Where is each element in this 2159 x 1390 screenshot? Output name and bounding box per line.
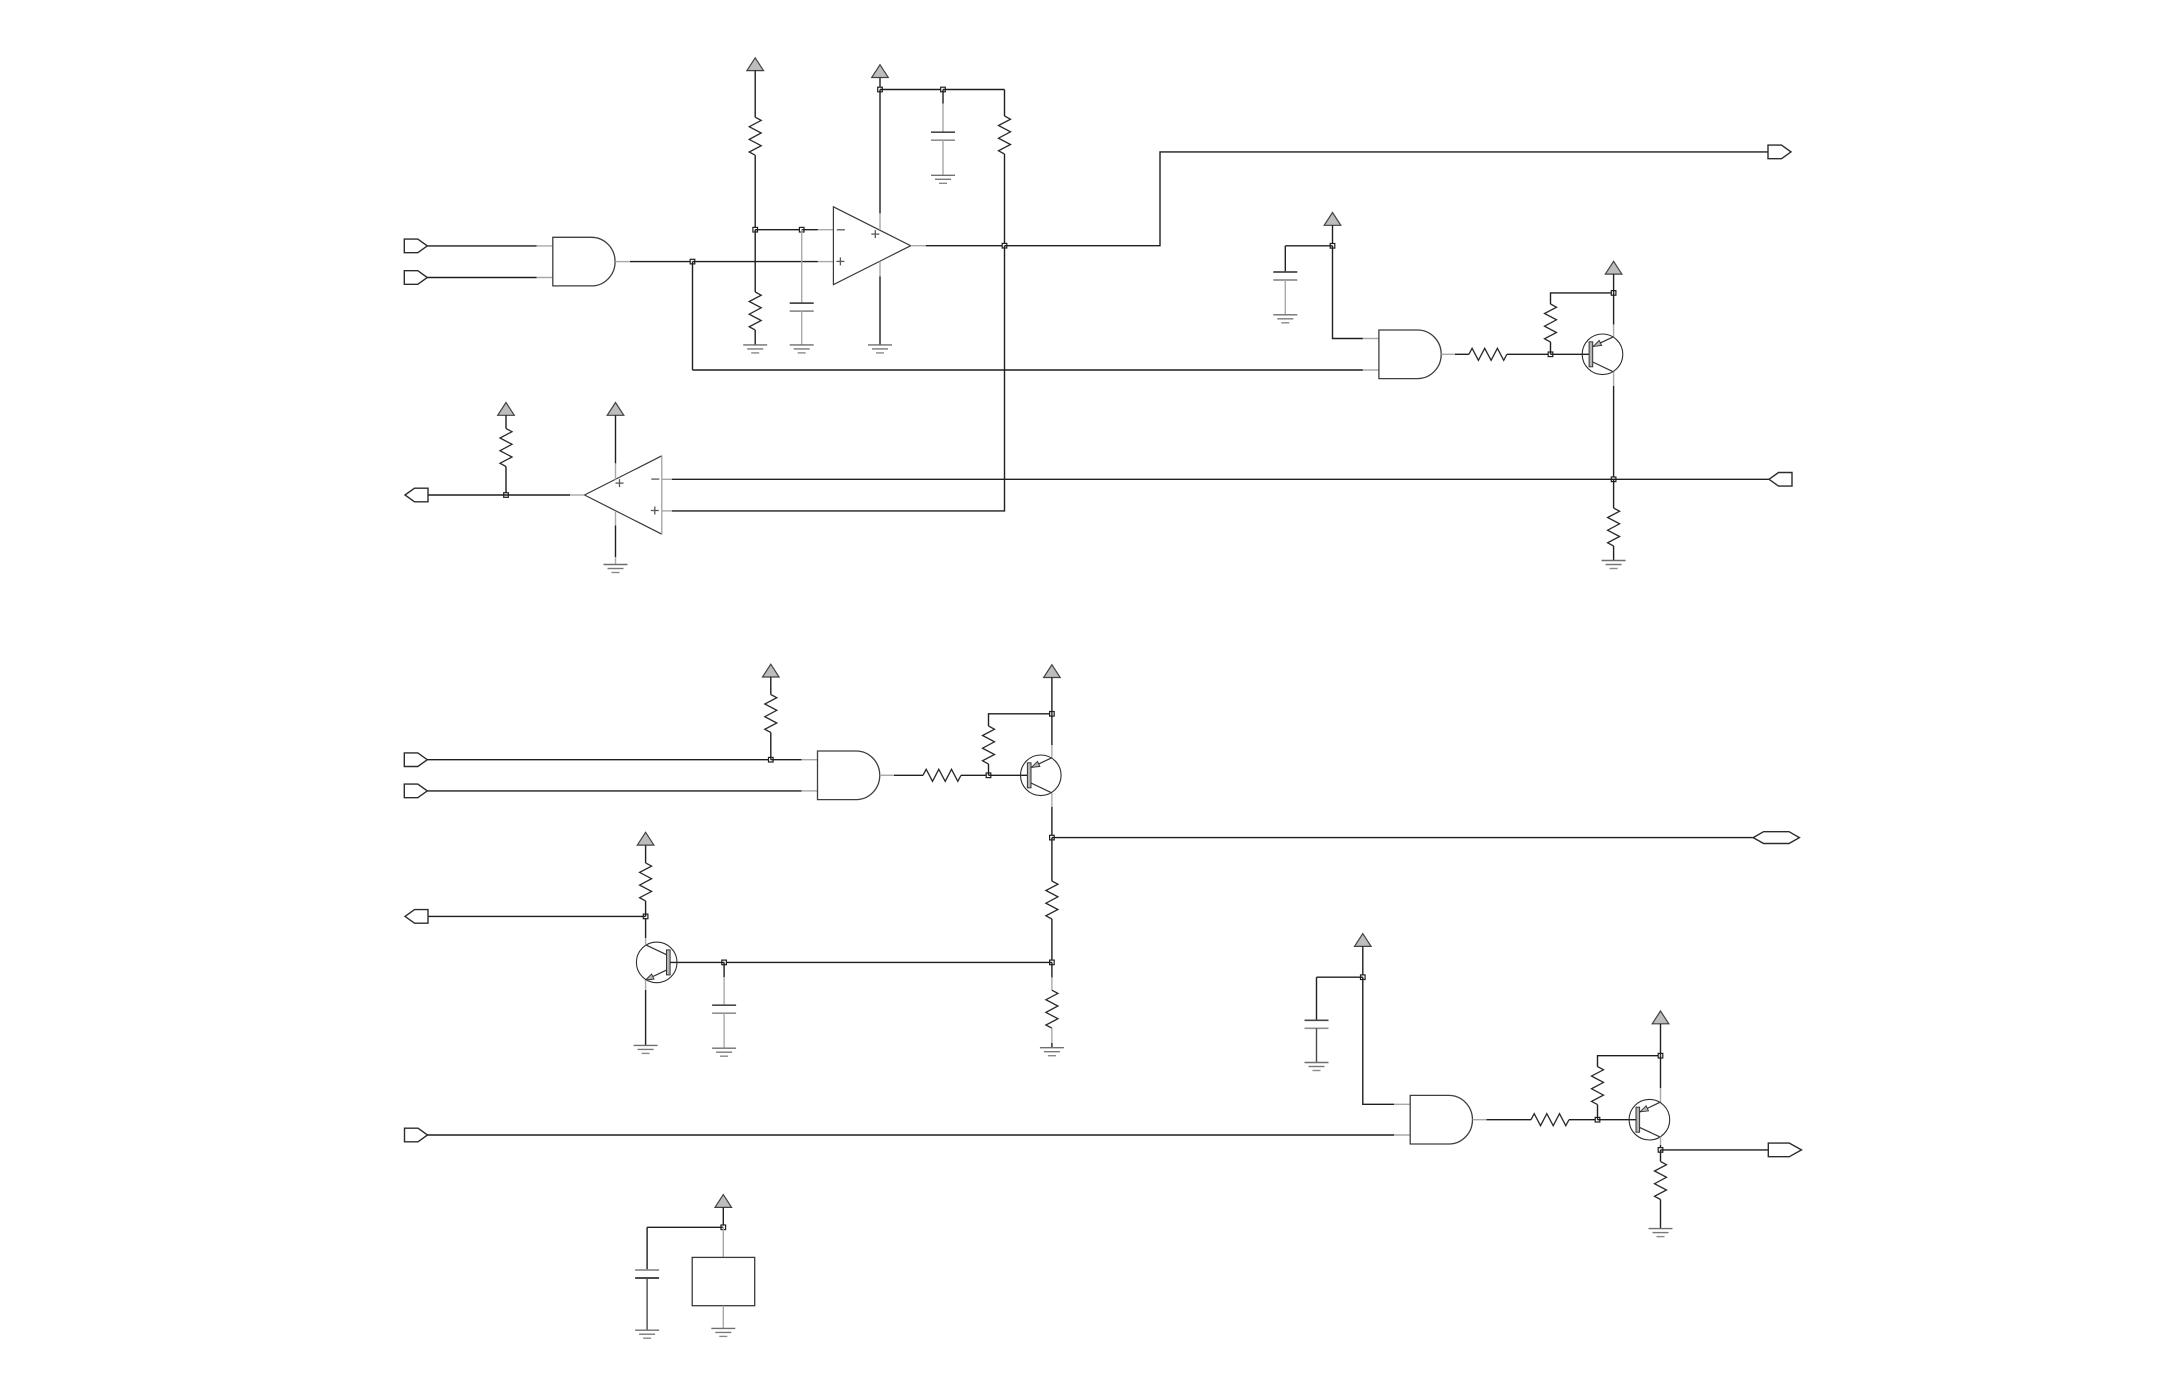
junction Q3 collector node	[643, 914, 648, 919]
wire node B to C1 node	[755, 229, 802, 231]
wire collector node to OUT5	[1661, 1149, 1771, 1151]
ground below C1	[790, 345, 814, 353]
junction Q1 emitter rail	[1611, 291, 1616, 296]
wire C7 node to U6 input A	[1363, 977, 1394, 1104]
pin stub Q4 collector	[1660, 1137, 1662, 1145]
junction Q4 collector node	[1658, 1148, 1663, 1153]
pin stub U4 input B	[802, 790, 818, 792]
pin stub U5 -in	[662, 478, 672, 480]
output connector OUT2	[1769, 473, 1792, 487]
ground below U2	[868, 345, 892, 353]
ground below C4	[712, 1048, 736, 1056]
junction Q3 base node	[722, 960, 727, 965]
resistor R8	[765, 695, 777, 733]
wire R4 to Q1 base node	[1507, 353, 1551, 355]
pin stub X1 bottom	[722, 1306, 724, 1329]
node A junction	[690, 259, 695, 264]
wire feedback to U3 gate input	[693, 369, 1363, 371]
pin stub Q2 collector	[1051, 793, 1053, 807]
wire node D to OUT3	[428, 494, 506, 496]
wire Q3 emitter to ground	[645, 990, 647, 1045]
resistor R2	[749, 292, 761, 330]
wire IN2 to U1 gate	[427, 277, 536, 279]
ground below C6	[635, 1330, 659, 1338]
VCC symbol above R13	[637, 832, 654, 845]
pin stub Q1 emitter	[1613, 325, 1615, 338]
wire U2 V- to ground	[879, 276, 881, 345]
node B junction at R1/R2	[753, 227, 758, 232]
wire R7 to node D	[505, 467, 507, 496]
VCC symbol above X1	[715, 1195, 732, 1208]
junction Q4 base node	[1595, 1117, 1600, 1122]
pin stub U5 gnd	[615, 557, 617, 565]
resistor R12	[1046, 990, 1058, 1028]
pin stub U6 input A	[1394, 1103, 1410, 1105]
input connector IN1	[404, 239, 427, 253]
resistor R5	[1545, 304, 1557, 342]
resistor R9	[923, 769, 961, 781]
pin stub U3 output	[1441, 353, 1455, 355]
wire R1 to node B	[754, 155, 756, 230]
wire C7 to ground	[1316, 1028, 1318, 1062]
pin stub U5 V-	[615, 511, 617, 526]
pin stub U3 input A	[1363, 338, 1379, 340]
pin stub U1 input B	[537, 277, 553, 279]
junction Q2 collector node	[1050, 835, 1055, 840]
VCC symbol above Q2	[1044, 665, 1061, 678]
wire C3 to ground	[1284, 280, 1286, 315]
resistor R6	[1608, 508, 1620, 546]
wire U2 output to node C	[926, 245, 1005, 247]
resistor R15	[1592, 1067, 1604, 1105]
wire base node to Q4	[1598, 1119, 1637, 1121]
wire R14 to Q4 base node	[1569, 1119, 1598, 1121]
resistor R10	[983, 726, 995, 764]
AND gate U3	[1379, 330, 1441, 379]
output connector OUT3	[405, 488, 428, 502]
capacitor C1	[790, 303, 814, 311]
pin stub U2 output	[911, 245, 926, 247]
capacitor C3	[1273, 272, 1297, 280]
node F junction	[1050, 960, 1055, 965]
VCC symbol above U2	[872, 65, 889, 78]
wire Q4 collector down	[1660, 1145, 1662, 1150]
pin stub Q3 collector	[645, 938, 647, 945]
input connector IN2	[404, 271, 427, 285]
wire base node up to R5	[1550, 342, 1552, 354]
AND gate U1	[553, 237, 615, 286]
node E junction	[769, 757, 774, 762]
wire C3 node left	[1285, 245, 1332, 247]
wire Q1 collector to R6	[1613, 479, 1615, 508]
pin stub U2 +in	[818, 261, 834, 263]
wire VCC to Q1 rail	[1613, 274, 1615, 293]
pin stub X1 top	[722, 1227, 724, 1257]
resistor R13	[640, 863, 652, 901]
wire node B to U2 inverting input	[802, 229, 818, 231]
wire C6 upper lead	[646, 1227, 648, 1270]
wire U4 output to R9	[894, 774, 923, 776]
wire R12 to ground	[1051, 1043, 1053, 1048]
junction Q2 emitter rail	[1050, 712, 1055, 717]
junction Q2 base node	[986, 773, 991, 778]
wire Q1 collector down	[1613, 386, 1615, 479]
VCC symbol above R7	[498, 403, 515, 416]
wire VCC to R1	[754, 71, 756, 118]
wire R9 to Q2 base node	[961, 774, 989, 776]
VCC symbol above Q4	[1652, 1011, 1669, 1024]
wire R10 top to VCC rail	[989, 714, 1052, 726]
ground below C3	[1273, 315, 1297, 323]
resistor R16	[1655, 1162, 1667, 1200]
wire node to R11	[1051, 838, 1053, 881]
wire node B to R2 lower	[754, 230, 756, 292]
transistor Q1 (PNP)	[1582, 334, 1623, 375]
wire node C to OUT1	[1005, 152, 1769, 246]
wire VCC to X1 node	[722, 1207, 724, 1227]
wire U1 output to node A	[630, 261, 693, 263]
pin stub U2 V+	[879, 213, 881, 230]
junction Q1 base node	[1548, 352, 1553, 357]
output connector OUT5	[1768, 1143, 1801, 1157]
wire VCC to C3 node	[1332, 225, 1334, 246]
wire rail to Q4 emitter	[1660, 1056, 1662, 1088]
wire R11 to node F	[1051, 919, 1053, 962]
wire C7 upper lead	[1316, 977, 1318, 1020]
wire Q3 base	[670, 961, 724, 963]
pin stub Q2 emitter	[1051, 745, 1053, 758]
wire rail down to R3	[1004, 90, 1006, 117]
resistor R1	[749, 117, 761, 155]
VCC symbol above Q1	[1605, 261, 1622, 274]
pin stub U3 input B	[1363, 369, 1379, 371]
transistor Q2 (PNP)	[1021, 755, 1062, 796]
ground below R12	[1040, 1048, 1064, 1056]
wire C4 upper lead	[723, 962, 725, 977]
wire base node up to R10	[988, 764, 990, 775]
wire C2 upper lead gray	[942, 104, 944, 133]
wire R5 top to VCC rail	[1551, 293, 1614, 304]
pin stub U5 output	[570, 494, 585, 496]
wire C7 node left	[1317, 976, 1363, 978]
VCC symbol above C7	[1355, 934, 1372, 947]
op-amp U2	[833, 207, 910, 285]
wire base node up to R15	[1597, 1105, 1599, 1120]
wire IN3 to node E	[427, 759, 771, 761]
wire VCC to R7	[505, 415, 507, 428]
wire R15 top to VCC rail	[1598, 1056, 1661, 1067]
pin stub U6 output	[1473, 1119, 1487, 1121]
node B junction at C1	[799, 227, 804, 232]
junction Q1 collector node	[1611, 477, 1616, 482]
wire R8 to node E	[770, 733, 772, 760]
input connector IN4	[404, 784, 427, 798]
VCC symbol above U5	[607, 403, 624, 416]
wire C6 to ground	[646, 1278, 648, 1330]
wire node A feedback down	[692, 262, 694, 370]
wire U5 V- to ground	[615, 526, 617, 558]
resistor R14	[1531, 1114, 1569, 1126]
transistor Q4 (PNP)	[1629, 1099, 1670, 1140]
VCC symbol above C3	[1324, 213, 1341, 226]
wire R3 to output node	[1004, 154, 1006, 246]
junction VCC rail left	[878, 87, 883, 92]
VCC symbol above R1	[747, 58, 764, 71]
ground below U5	[604, 565, 628, 573]
resistor R11	[1046, 881, 1058, 919]
resistor R7	[500, 429, 512, 467]
wire VCC to Q4 rail	[1660, 1024, 1662, 1056]
wire node up to R13	[645, 901, 647, 917]
wire IN1 to U1 gate	[427, 245, 536, 247]
pin stub Q3 emitter	[645, 980, 647, 990]
VCC rail to C2	[880, 89, 943, 91]
wire U3 output to R4	[1455, 353, 1469, 355]
wire rail to Q2 emitter	[1051, 714, 1053, 745]
capacitor C6	[635, 1270, 659, 1278]
wire VCC U2 down	[879, 78, 881, 90]
ground below R6	[1602, 561, 1626, 569]
wire node E to U4 input A	[771, 759, 802, 761]
op-amp U5	[585, 456, 662, 534]
junction X1 node	[721, 1225, 726, 1230]
wire node C down to U5 noninverting	[672, 246, 1005, 511]
junction Q4 emitter rail	[1658, 1053, 1663, 1058]
wire R13 to VCC	[645, 845, 647, 863]
wire Q2 collector down	[1051, 807, 1053, 838]
wire VCC to Q2 rail	[1051, 678, 1053, 714]
junction VCC rail at C2	[941, 87, 946, 92]
AND gate U6	[1410, 1095, 1472, 1144]
wire collector node to OUTBI	[1052, 837, 1753, 839]
pin stub U6 input B	[1394, 1134, 1410, 1136]
VCC symbol above R8	[763, 664, 780, 677]
input connector IN5	[405, 1128, 428, 1142]
wire U6 output to R14	[1487, 1119, 1532, 1121]
wire VCC to R8	[770, 677, 772, 695]
wire R2 to ground	[754, 330, 756, 345]
wire main net to OUT2	[1614, 478, 1769, 480]
wire C1 to ground	[801, 311, 803, 345]
resistor R3	[999, 116, 1011, 154]
ground below C7	[1305, 1063, 1329, 1071]
node C junction	[1002, 243, 1007, 248]
wire C4 upper lead gray	[723, 977, 725, 1005]
wire collector node to OUT4	[428, 915, 646, 917]
wire main net long to U5 inverting	[672, 478, 1614, 480]
junction C7 node	[1361, 975, 1366, 980]
pin stub U1 output	[615, 261, 630, 263]
pin stub U5 +in	[662, 510, 672, 512]
wire VCC to C7 node	[1362, 946, 1364, 977]
input connector IN3	[404, 753, 427, 767]
resistor R4	[1469, 348, 1507, 360]
ground below Q3	[634, 1045, 658, 1053]
wire R16 to ground	[1660, 1200, 1662, 1229]
wire base node to Q2	[989, 774, 1028, 776]
AND gate U4	[818, 751, 880, 800]
capacitor C4	[712, 1005, 736, 1013]
pin stub Q4 emitter	[1660, 1088, 1662, 1102]
pin stub U2 V-	[879, 261, 881, 276]
wire node F to Q3 base node	[724, 961, 1052, 963]
wire X1 node left	[647, 1226, 723, 1228]
wire C4 to ground	[723, 1013, 725, 1048]
ground below R2	[743, 345, 767, 353]
ground below X1	[711, 1328, 735, 1336]
transistor Q3 (NPN)	[636, 942, 677, 983]
bidirectional connector OUTBI	[1753, 832, 1799, 844]
wire C2 upper lead	[942, 90, 944, 104]
wire rail to Q1 emitter	[1613, 293, 1615, 325]
pin stub U1 input A	[537, 245, 553, 247]
wire R12 upper stub	[1051, 977, 1053, 990]
output connector OUT1	[1768, 145, 1791, 159]
node D junction	[504, 493, 509, 498]
wire base node to Q1	[1551, 353, 1590, 355]
pin stub U5 V+	[615, 463, 617, 479]
pin stub U2 -in	[818, 229, 834, 231]
junction C3 node	[1330, 244, 1335, 249]
wire C3 node to U3 input A	[1333, 246, 1363, 339]
wire node F to R12	[1051, 962, 1053, 977]
pin stub U4 output	[880, 774, 894, 776]
wire node to R16	[1660, 1150, 1662, 1162]
component X1 box	[692, 1257, 755, 1305]
wire IN4 to U4 input B	[427, 790, 801, 792]
wire VCC U5 down	[615, 415, 617, 463]
wire U2 V+ pin upper	[879, 90, 881, 214]
wire node D to U5 output	[506, 494, 570, 496]
output connector OUT4	[405, 910, 428, 924]
wire R6 to ground	[1613, 546, 1615, 561]
pin stub Q1 collector	[1613, 372, 1615, 386]
VCC rail to R3	[943, 89, 1005, 91]
capacitor C2	[931, 132, 955, 140]
ground below C2	[931, 175, 955, 183]
wire node A to U2 noninverting input	[693, 261, 818, 263]
ground below R16	[1649, 1229, 1673, 1237]
wire C3 upper lead	[1284, 246, 1286, 272]
wire C1 upper lead	[801, 230, 803, 303]
wire Q3 collector up	[645, 916, 647, 938]
capacitor C7	[1305, 1020, 1329, 1028]
wire C2 to ground	[942, 140, 944, 175]
wire R12 lower stub	[1051, 1028, 1053, 1043]
wire IN5 to U6 input B	[428, 1134, 1395, 1136]
pin stub U4 input A	[802, 759, 818, 761]
